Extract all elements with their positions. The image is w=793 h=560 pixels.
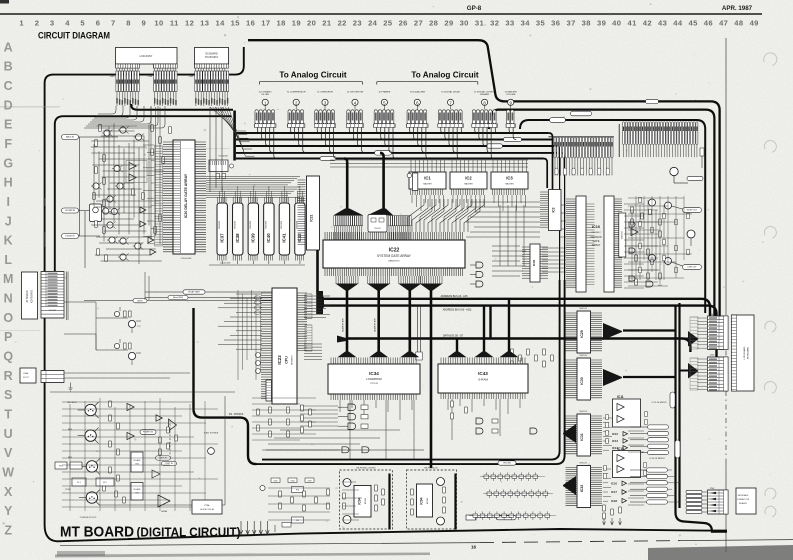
svg-text:IC41: IC41 [282,233,287,243]
svg-text:M5290: M5290 [365,497,367,504]
svg-text:MB62H176: MB62H176 [389,261,401,263]
svg-text:39: 39 [597,19,606,28]
right area wires [624,200,664,288]
svg-text:18: 18 [276,19,285,28]
extra wires right-mid cluster [628,196,692,286]
svg-text:MUTE: MUTE [137,300,143,302]
left connector pin table [41,272,64,319]
bus bundle horizontal lines [236,132,549,134]
svg-text:To DIGITAL DELAY: To DIGITAL DELAY [441,90,460,93]
bottom-left wires [62,398,218,511]
svg-text:MASTER: MASTER [505,183,514,186]
IC2 master block [450,172,487,189]
svg-text:22: 22 [338,19,347,28]
diode array row 1 [484,475,489,478]
connector block LCD ASSY [116,48,178,65]
svg-text:TR?: TR? [137,326,140,328]
svg-text:IC8-40-45M: IC8-40-45M [181,258,192,260]
braid of wires from connector into bundle [210,107,254,156]
oval stack left of IC23 [255,296,261,299]
svg-text:To COMPRESSOR: To COMPRESSOR [287,91,306,93]
bus bundle corner stubs down [549,133,553,190]
IC35 block [530,244,540,282]
transistor near band (top right) [670,167,678,175]
bus riser short from data bus [456,339,458,353]
svg-text:1: 1 [19,19,24,28]
svg-text:DS BOARD: DS BOARD [206,53,218,56]
svg-text:DELAY GATE: DELAY GATE [188,291,200,294]
IC23 left pin comb [261,293,272,399]
connector block DS BOARD TO KB ASSY [195,48,229,65]
wire from connector to cells [64,302,112,350]
IC41 ROM [279,203,289,255]
svg-text:SUB1 TOPSIDE: SUB1 TOPSIDE [204,433,219,435]
IC10 chorus gate array pin column right [604,196,614,292]
svg-text:HD63B03Y: HD63B03Y [292,354,294,365]
IC43 top fans [448,352,467,358]
IC94-1 small parts [343,493,346,499]
bus riser to IC43 from bus1 [508,299,510,352]
comb 2 tail wires [389,226,410,241]
IC43 top hatch [441,358,525,365]
IC37 ROM [217,203,227,255]
svg-text:DELAY IN: DELAY IN [66,235,75,238]
svg-text:F14: F14 [296,490,299,492]
IC20 left pin comb [163,142,173,252]
svg-text:40: 40 [612,19,621,28]
svg-text:IC23: IC23 [277,355,282,365]
gnd arrow row bottom-left [240,521,242,533]
svg-text:15: 15 [231,19,241,28]
svg-text:MASTER: MASTER [464,183,473,186]
svg-text:20: 20 [307,19,316,28]
svg-text:B: B [4,60,13,74]
left small parts near IC94-1 [279,491,282,497]
IC3 master block [491,172,528,189]
IC94-2 transistors [437,478,445,486]
svg-text:TO KB ASSY: TO KB ASSY [205,56,219,59]
svg-text:IC40: IC40 [266,233,271,243]
svg-text:23: 23 [353,19,362,28]
svg-text:ADDRESS BUS A0 - A15: ADDRESS BUS A0 - A15 [441,295,469,298]
data bus left fan [337,336,346,343]
svg-text:38: 38 [582,19,591,28]
IC22 top pin hatch [325,232,463,240]
IC4051 gates right [629,222,635,227]
svg-text:IC10: IC10 [592,225,600,229]
IC21 block left of bus origin [307,176,320,250]
gnd under connector 2 [70,383,72,389]
svg-text:IC21: IC21 [310,214,314,221]
IC2 upper block [549,190,562,231]
svg-text:17: 17 [261,19,270,28]
svg-text:MB834000: MB834000 [219,221,221,229]
svg-text:IC8 (4069): IC8 (4069) [218,156,228,158]
phaser transistor [687,230,695,238]
IC22 bottom pin hatch [325,268,463,276]
svg-text:CPU: CPU [285,356,289,364]
bracket under left header [260,82,363,85]
svg-text:AT BOARD: AT BOARD [26,290,29,302]
svg-text:IC11: IC11 [617,395,624,399]
IC39 ROM [248,203,258,255]
diode row connecting wires [480,476,545,478]
svg-text:KEYBOARD: KEYBOARD [738,494,749,497]
boxed F14 labels left of IC94-1 [292,487,304,493]
small resistor bottom mid [466,515,476,520]
gates under IC43 [530,428,537,434]
svg-text:IC38: IC38 [235,233,240,243]
right thick vertical pair to bottom corner [676,306,728,532]
svg-text:MB834000: MB834000 [297,221,299,229]
left connector table lower rows [41,307,64,318]
svg-text:45: 45 [688,19,698,28]
svg-text:IC94: IC94 [358,497,362,504]
address bus 2 [322,306,717,357]
svg-text:5: 5 [80,19,85,28]
IC22 pin pill comb 2 [389,216,391,226]
svg-text:ADDRESS BUS (A0 - A15): ADDRESS BUS (A0 - A15) [443,309,472,312]
oval POWER ON [140,430,156,435]
IC22 bottom fans to bus verticals [336,284,359,291]
mid-left circuit cell 2 [114,343,119,348]
svg-text:IC17: IC17 [611,490,617,494]
band A wire tails [624,145,697,158]
IC22 top fan 2 [368,209,394,216]
svg-text:KEYBOARD: KEYBOARD [31,290,34,304]
bottom-left MIDI DIN sockets [85,404,96,415]
svg-text:IC15-18 M5218: IC15-18 M5218 [649,458,665,460]
IC20 left pin labels [155,146,163,246]
svg-text:K: K [4,234,13,248]
svg-text:LCD ASSY: LCD ASSY [140,54,153,58]
vertical wires left of IC23 [238,290,261,380]
wires from cluster to IC20 label column [143,145,155,244]
svg-text:R: R [4,369,13,383]
fuse boxes row [55,462,67,469]
row letters A-Z [2,40,14,537]
IC30 output fan [603,369,622,386]
staircase wires to bus corner [262,430,400,450]
bottom-left cluster right border wire [100,396,225,505]
svg-text:POWER ON: POWER ON [143,432,154,434]
bus label oval 3 [320,156,336,160]
svg-text:E: E [4,118,12,132]
svg-text:CONNECTOR: CONNECTOR [737,499,750,501]
svg-text:27C128: 27C128 [370,383,378,385]
svg-text:35: 35 [536,19,546,28]
gate cluster feed wires [300,406,338,426]
IC23 right pin labels lower [305,325,312,351]
svg-text:ADDRESS BUS: ADDRESS BUS [374,317,377,331]
wires IC31/32 to opamps [603,418,612,501]
svg-text:MONO OUT: MONO OUT [687,210,698,212]
svg-text:O: O [3,311,13,325]
svg-text:GP-8: GP-8 [467,5,482,12]
wires from connector 2 [64,372,190,374]
right area small parts [631,207,634,213]
IC22 pin pill comb 1 [334,216,336,226]
svg-text:7: 7 [111,19,116,28]
bus label OVERDRIVE [487,144,503,148]
svg-text:H: H [4,176,13,190]
input bus vertical from BACK IN [79,137,81,236]
resistor array above IC22 right [412,173,417,191]
IC94-1 right thick bar [388,474,390,530]
IC94-1 wires [342,482,362,520]
svg-text:LM386: LM386 [161,511,168,513]
parts below osc box [216,174,220,179]
IC22 top fan 1 [334,209,364,216]
board midi oval [168,295,188,299]
svg-text:MT BOARD: MT BOARD [60,525,134,541]
wire from BACK IN [79,136,119,138]
bus riser to IC43 from bus2 [483,306,485,352]
output ovals group 2 [647,468,668,472]
svg-text:13: 13 [200,19,209,28]
svg-text:CN4: CN4 [110,76,115,78]
IC15 dual opamp box [613,451,641,478]
svg-text:24: 24 [368,19,378,28]
svg-text:3: 3 [50,19,55,28]
double bus horizontal labels [498,461,516,465]
IC43 bottom hatch [441,393,525,399]
IC34 top hatch [331,358,416,365]
connector pins CN4 group [116,64,140,68]
row labels left of CN1 [690,317,698,349]
IC94 power block 1 dashed [340,470,393,529]
svg-text:To Analog Circuit: To Analog Circuit [279,71,347,80]
bottom-left small parts [109,401,112,407]
svg-text:P: P [4,330,12,344]
svg-text:LCD BOARD: LCD BOARD [743,346,746,359]
left border dashes [44,198,46,247]
IC31 input fan from bus pair [563,424,576,443]
svg-text:2: 2 [35,19,40,28]
svg-text:IC13: IC13 [612,439,618,443]
logic gates near IC43 [451,401,454,407]
svg-text:IC12: IC12 [612,432,618,436]
svg-text:11: 11 [170,19,179,28]
slim pin column left of IC34 [266,380,272,401]
bus riser x490 between bus2 and data bus [489,306,491,339]
opamp LM386 [158,495,170,507]
wires below IC1-IC3 [412,195,444,211]
svg-text:9: 9 [141,19,146,28]
svg-text:Y: Y [4,504,13,518]
svg-text:28: 28 [429,19,438,28]
svg-text:37: 37 [566,19,575,28]
svg-text:ROLAND: ROLAND [133,459,141,462]
svg-text:IC3: IC3 [506,176,513,181]
IC43 S-RAM [438,364,528,393]
relay boxes [131,452,143,472]
inverter gate bottom [152,470,160,478]
svg-text:47: 47 [719,19,728,28]
schematic inner border top-left [55,116,232,271]
svg-text:IC2: IC2 [465,176,472,181]
svg-text:16: 16 [246,19,255,28]
svg-text:VOLUME: VOLUME [506,94,516,96]
svg-text:19: 19 [292,19,301,28]
svg-text:To DISTORTION: To DISTORTION [347,91,364,93]
small parts under IC32 [603,505,606,511]
vertical oval label right [670,392,675,408]
svg-text:IC94: IC94 [420,497,424,504]
svg-text:C: C [4,79,13,93]
caps near IC34 bottom [301,405,304,411]
connector pins CN5 group [195,64,229,68]
IC32 latch [577,466,591,508]
svg-text:V: V [4,446,13,460]
svg-text:MB834000: MB834000 [265,221,267,229]
svg-text:MB834000: MB834000 [250,221,252,229]
bus label oval [571,111,592,116]
svg-text:To OVERDRIVE: To OVERDRIVE [317,91,333,93]
svg-text:31: 31 [475,19,485,28]
svg-text:IC32: IC32 [580,485,584,493]
svg-text:DATA BUS D0 - D7: DATA BUS D0 - D7 [443,335,464,338]
bottom thin rule [60,543,480,546]
horizontal scan streak artifacts [0,106,60,107]
svg-text:X: X [4,485,13,499]
svg-text:To Analog Circuit: To Analog Circuit [411,71,479,80]
bottom sheet-edge shadow left [55,553,430,558]
resistor array band B [554,137,556,158]
IC1 master block [409,172,446,189]
left input oval GUITAR IN [62,208,79,213]
bus label DELAY [375,151,392,155]
svg-text:16: 16 [471,545,477,550]
svg-text:A: A [4,40,13,54]
wires table CN1 CN2 rows [697,318,708,390]
IC11 dual opamp box [613,399,641,427]
long verticals from connector G3 down to ROM area [210,107,222,192]
IC20 inner left pin ticks [174,142,181,252]
svg-text:C909: C909 [307,481,311,483]
IC38 ROM [233,203,243,255]
svg-text:SYNC: SYNC [65,489,71,491]
bus label DISTORTION [504,137,522,141]
svg-text:L: L [4,253,12,267]
svg-text:MN4164: MN4164 [621,230,623,238]
xtal oscillator box [192,500,222,514]
parts right of IC23 lower [511,349,514,355]
svg-text:M: M [3,272,13,286]
long signal wire with WAIT oval [84,300,133,302]
svg-text:CHORUS: CHORUS [590,235,602,239]
svg-text:MASTER: MASTER [423,183,432,186]
IC42 ROM [295,203,305,255]
HACK IN oval [156,456,171,460]
svg-text:IC11-14 M5218: IC11-14 M5218 [652,402,668,404]
svg-text:30: 30 [460,19,469,28]
page right fold line [725,38,727,310]
IC22 system gate array [323,240,465,268]
svg-text:10: 10 [154,19,163,28]
output transistors and ovals right [649,199,656,206]
svg-text:BACK IN: BACK IN [66,136,75,139]
svg-text:IC1: IC1 [424,176,431,181]
svg-text:48: 48 [734,19,743,28]
band B wire tails [555,158,612,176]
power inside oval [496,515,516,520]
svg-text:IC8-42-45M: IC8-42-45M [220,263,231,265]
delay RAM slim block right of IC10 [619,213,626,257]
thick wire from LCD connector to bus bundle [131,104,233,110]
vertical oval label right 2 [675,440,680,458]
svg-text:CIRCUIT DIAGRAM: CIRCUIT DIAGRAM [38,31,110,41]
output ovals group 1 [648,425,669,429]
LCD board keyboard tall box [732,315,755,391]
svg-text:44: 44 [673,19,683,28]
IC94-1 inner IC [354,486,371,518]
wires IC23 to buses [218,294,330,360]
svg-text:IC2: IC2 [552,207,556,212]
oval label below transistor [687,176,703,180]
IC94-2 right thick bar [454,474,456,530]
wires IC1-3 down to IC22 [408,199,484,232]
thick wire down from bundle to IC22 fan 2 [380,153,384,210]
svg-text:Q: Q [3,350,13,364]
svg-text:RE-PS/05E+-5V/GE5: RE-PS/05E+-5V/GE5 [356,468,376,470]
svg-text:W: W [2,465,14,479]
svg-text:SYSTEM GATE ARRAY: SYSTEM GATE ARRAY [377,254,412,258]
bottom mid connecting wires [252,398,316,440]
IC34 top fans [338,352,357,358]
svg-text:49: 49 [750,19,759,28]
IC29 latch [577,311,591,353]
opto opamp [169,419,177,431]
diode array row 2 [487,492,492,495]
IC10 left feed wires [542,205,566,272]
IC30 latch [577,358,591,400]
svg-text:41: 41 [627,19,637,28]
scan speckles [187,301,188,302]
svg-text:IC15: IC15 [617,447,624,451]
svg-text:F14: F14 [296,520,299,522]
svg-text:FOOT: FOOT [23,377,29,379]
gates on wire 450 [266,449,424,451]
svg-text:36: 36 [551,19,560,28]
svg-text:To EQUALIZER: To EQUALIZER [410,90,426,93]
opto isolator dashed line [169,420,171,458]
wires left power area [268,488,330,520]
svg-text:27: 27 [414,19,423,28]
thin pair between buses [417,306,419,352]
thick bypass bus vertical left-center [194,308,257,464]
SYNC IN oval [162,461,177,465]
IC34 bottom hatch [331,394,416,400]
band divider line [618,124,620,157]
svg-text:74HC574: 74HC574 [579,463,587,465]
svg-text:IC29: IC29 [580,330,584,338]
svg-text:74HC574: 74HC574 [579,355,587,357]
IC23 right pin labels upper [305,294,312,319]
page header rule [0,13,762,15]
band B left bracket wire [549,136,615,138]
svg-text:KEYBOARD: KEYBOARD [747,347,750,360]
oval label on top bus line [646,99,659,103]
table right border double line [66,272,68,321]
analog cluster small resistors [99,125,102,131]
IC94-1 transistors [343,479,351,487]
IC40 ROM [264,203,274,255]
svg-text:KB ASSY: KB ASSY [739,502,748,505]
svg-text:IC37: IC37 [219,233,224,243]
CN3 feed ovals [686,490,702,493]
analog cluster opamps [140,207,146,213]
